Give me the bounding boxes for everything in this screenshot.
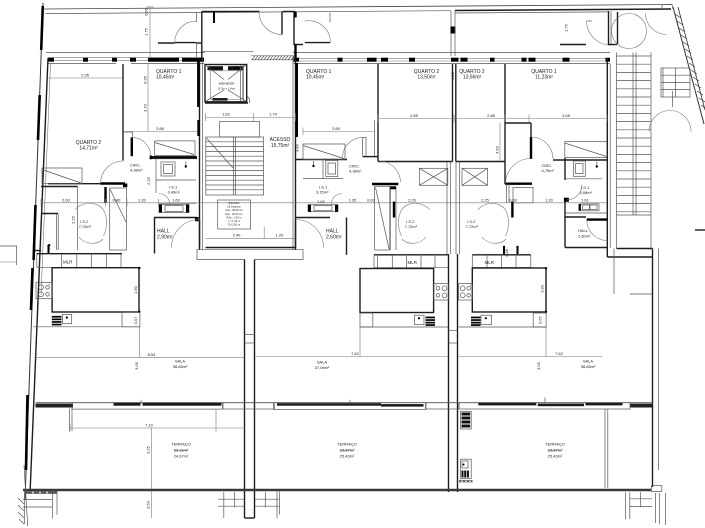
- MLR cabinets C: [472, 255, 531, 268]
- svg-text:37,06m²: 37,06m²: [315, 365, 330, 370]
- exterior stair center left: [218, 492, 245, 518]
- svg-text:0.57: 0.57: [538, 315, 543, 324]
- IS1-C door arc: [567, 185, 582, 200]
- porch window line: [202, 50, 254, 52]
- door swing arc at stair base: [649, 111, 691, 132]
- exterior stair bottom-right: [626, 492, 653, 519]
- svg-text:25,43m²: 25,43m²: [548, 454, 563, 459]
- party wall A/B crossbars: [245, 334, 255, 336]
- svg-text:0.60: 0.60: [509, 198, 518, 203]
- svg-text:4,75m²: 4,75m²: [542, 168, 555, 173]
- porch grille hatched strip: [251, 56, 294, 60]
- window C frame: [459, 403, 630, 409]
- unit A east wall thick piece: [197, 120, 199, 136]
- IS1-A top wall: [151, 158, 197, 160]
- IS2-A inner vertical: [77, 187, 79, 251]
- right boundary hatched band inner: [678, 7, 705, 110]
- terrace A privacy stub: [69, 409, 71, 432]
- north wall solid chunks left: [48, 58, 204, 62]
- Q1C door arc: [531, 137, 553, 159]
- svg-text:4.50: 4.50: [495, 145, 500, 154]
- svg-text:0.95: 0.95: [144, 7, 149, 16]
- porch right step wall: [294, 44, 303, 46]
- svg-text:0.57: 0.57: [133, 316, 138, 325]
- entry porch left wall: [201, 12, 203, 59]
- svg-text:3.70: 3.70: [143, 103, 148, 112]
- stair info box text: [225, 201, 243, 227]
- svg-text:1.60: 1.60: [317, 199, 326, 204]
- svg-text:3.25: 3.25: [146, 445, 151, 454]
- svg-text:1.61: 1.61: [581, 198, 590, 203]
- svg-text:elevador: elevador: [219, 81, 235, 86]
- stove B: [434, 284, 449, 300]
- vestibule door arc: [587, 21, 611, 45]
- top-right vestibule wall double line: [455, 9, 671, 11]
- recess wall right of door: [283, 11, 296, 13]
- IS1-A inner divider: [156, 179, 196, 181]
- IS2-C jamb: [506, 184, 508, 203]
- svg-text:11,23m²: 11,23m²: [535, 75, 553, 81]
- HALL-A junction black: [195, 217, 199, 221]
- svg-text:3.08: 3.08: [562, 113, 571, 118]
- svg-text:1.75: 1.75: [564, 23, 569, 32]
- svg-text:7,72m²: 7,72m²: [466, 224, 479, 229]
- svg-text:1.90: 1.90: [133, 285, 138, 294]
- right edge tick: [695, 229, 705, 231]
- left boundary thick segment 4: [31, 268, 33, 310]
- svg-text:3,08m²: 3,08m²: [580, 190, 593, 195]
- svg-text:8.54: 8.54: [148, 352, 157, 357]
- HALL-C entry door arc: [587, 220, 608, 241]
- svg-text:2.48: 2.48: [504, 248, 509, 257]
- Q1A door leaf: [131, 137, 133, 156]
- toilet A: [161, 162, 175, 176]
- window B slider bars: [277, 403, 381, 406]
- sink A: [62, 315, 71, 324]
- HALL-C top wall: [565, 216, 586, 218]
- Q1A south wall: [151, 156, 197, 158]
- kitchen island C: [472, 268, 546, 312]
- dim row elevator 1.82 / 1.79: [206, 112, 296, 122]
- dim 8.54 sala A: [34, 352, 245, 370]
- far-left small ground mark: [0, 261, 17, 263]
- front wall segment B-C: [426, 403, 459, 409]
- IS1-A west wall: [155, 159, 157, 193]
- HALL-B entry door leaf: [295, 220, 297, 248]
- IS2-C swing curve: [478, 203, 509, 236]
- boundary lower thin parallel: [24, 465, 28, 526]
- IS2-C shower box: [462, 168, 488, 185]
- svg-text:2.85: 2.85: [410, 113, 419, 118]
- svg-text:4,38m²: 4,38m²: [349, 169, 362, 174]
- svg-text:1.20: 1.20: [545, 198, 554, 203]
- recess door leaf: [281, 12, 283, 35]
- texts and dimensions: [34, 7, 607, 518]
- porch north wall with door A : wall bits: [158, 42, 175, 44]
- svg-text:7.10: 7.10: [145, 423, 154, 428]
- IS2-B door leaf black: [393, 202, 395, 218]
- svg-text:ESCADA: ESCADA: [229, 201, 240, 205]
- HALL-A entry door leaf: [199, 220, 201, 248]
- IS2-B shower box: [419, 168, 447, 185]
- svg-text:2.25: 2.25: [481, 198, 490, 203]
- front wall segment A-B: [223, 403, 274, 409]
- svg-text:2,90m²: 2,90m²: [157, 235, 173, 241]
- svg-text:0.80: 0.80: [113, 198, 122, 203]
- Q2A closet: [42, 168, 82, 184]
- counter B: [360, 313, 448, 327]
- IS1-A door arc: [159, 194, 170, 205]
- svg-text:1.60: 1.60: [172, 198, 181, 203]
- kitchen island A: [52, 268, 139, 312]
- HALL-C entry door leaf: [587, 218, 608, 220]
- left boundary thick segment 1: [41, 6, 43, 50]
- top-right vestibule south wall: [560, 44, 586, 46]
- unit C east wall double: [606, 58, 608, 257]
- svg-text:3.50: 3.50: [146, 500, 151, 509]
- dim 3.25 terrace A vertical: [146, 428, 152, 489]
- svg-text:0.35: 0.35: [143, 75, 148, 84]
- svg-text:L = 1,20 m: L = 1,20 m: [228, 219, 240, 223]
- Q1B door arc: [343, 137, 363, 157]
- party wall B/C crossbars: [449, 330, 458, 332]
- window A frame: [72, 403, 223, 409]
- left boundary thick segment 3: [34, 205, 36, 260]
- sala front wall thin line: [36, 402, 653, 404]
- north window wall double lines right: [294, 57, 611, 59]
- island A corner dots: [138, 267, 140, 269]
- svg-text:2.63: 2.63: [62, 198, 71, 203]
- A closet junction black: [123, 184, 127, 188]
- svg-text:2.88: 2.88: [487, 113, 496, 118]
- door A jamb: [196, 13, 198, 23]
- svg-text:SALA: SALA: [175, 359, 186, 364]
- double vertical below top line b: [454, 11, 456, 56]
- dim 7.10 terrace A: [70, 410, 245, 433]
- svg-text:18 Degraus: 18 Degraus: [227, 205, 241, 209]
- IS2-C tub curve: [482, 237, 506, 243]
- recess door swing arc: [259, 12, 282, 35]
- svg-text:SALA: SALA: [583, 359, 594, 364]
- left boundary thick segment 5: [26, 395, 28, 470]
- sink hatch A: [52, 316, 62, 326]
- Q1A pilaster L: [123, 132, 133, 137]
- Q2A door leaf/wall south: [48, 183, 101, 185]
- svg-text:P.dir.: 1,50 m: P.dir.: 1,50 m: [227, 215, 242, 219]
- svg-text:4.80: 4.80: [450, 71, 455, 80]
- sink B: [415, 315, 425, 324]
- top-right step corner: [662, 4, 673, 10]
- Q1C closet: [565, 141, 608, 157]
- dim 0.35 / 3.70 vertical QUARTO1A: [143, 64, 149, 132]
- svg-text:TERRAÇO: TERRAÇO: [337, 442, 357, 447]
- terrace SE junction box: [651, 486, 661, 492]
- sink hatch B: [426, 317, 436, 326]
- dim 4.50 vertical C: [495, 123, 501, 162]
- svg-text:MLR: MLR: [485, 260, 495, 265]
- svg-text:4.80: 4.80: [295, 143, 300, 152]
- towel hook C: [596, 162, 598, 167]
- C south wall bit: [565, 247, 607, 249]
- svg-text:2.25: 2.25: [71, 215, 76, 224]
- window A slider bar: [114, 403, 141, 406]
- elevator: [205, 65, 250, 104]
- stove C: [459, 284, 473, 300]
- svg-text:2.40: 2.40: [233, 233, 242, 238]
- IS1-B inner divider vertical: [322, 160, 324, 179]
- right boundary hatch ticks: [675, 14, 705, 108]
- counter C: [459, 313, 546, 327]
- dim 7.62 sala C: [458, 351, 603, 370]
- terrace bottom wall: [23, 489, 651, 492]
- neighbour building stub left edge: [0, 246, 17, 265]
- svg-text:(1,3m x 1,4m): (1,3m x 1,4m): [218, 87, 235, 91]
- vestibule wall bit: [608, 44, 617, 46]
- party wall B/C IS2 zone: [446, 162, 448, 255]
- right mid short wall: [630, 293, 653, 295]
- vestibule inner wall double: [608, 11, 610, 45]
- mid dim row values B: [349, 198, 518, 203]
- svg-text:0.60: 0.60: [367, 198, 376, 203]
- elevator bottom wall: [205, 102, 248, 104]
- svg-text:7.62: 7.62: [555, 351, 564, 356]
- svg-text:2.95: 2.95: [81, 73, 90, 78]
- svg-text:24,67m²: 24,67m²: [174, 454, 189, 459]
- svg-text:14,71m²: 14,71m²: [79, 146, 98, 152]
- dim 1.60 IS1A vanity: [159, 203, 196, 205]
- island C corner dots: [545, 267, 547, 269]
- terrace C sink unit: [461, 459, 472, 479]
- svg-text:SALA: SALA: [317, 360, 328, 365]
- svg-text:7,72m²: 7,72m²: [405, 224, 418, 229]
- stove A: [36, 283, 52, 299]
- toilet B: [326, 161, 338, 177]
- svg-text:1.20: 1.20: [276, 233, 285, 238]
- IS1-C walls: [564, 158, 566, 180]
- svg-text:Cob.: 28,00 cm: Cob.: 28,00 cm: [225, 208, 243, 212]
- exterior stair bottom-left: [23, 491, 57, 524]
- stair upper landing: [220, 122, 260, 138]
- party wall B/C lower: [448, 254, 450, 492]
- entry second door arc: [646, 14, 667, 35]
- toilet C: [573, 161, 585, 176]
- front wall segment C right: [630, 404, 653, 408]
- svg-text:3.05: 3.05: [536, 361, 541, 370]
- HALL-B east wall: [346, 218, 348, 255]
- door B leaf: [305, 42, 331, 44]
- front wall solid segment left: [36, 404, 74, 408]
- stair enclosure extension: [613, 249, 615, 295]
- svg-text:1.75: 1.75: [144, 27, 149, 36]
- IS2-B swing curve: [398, 203, 430, 236]
- Q1B door pocket: [374, 120, 376, 157]
- left property boundary diagonal: [25, 3, 43, 500]
- Q1A closet: [155, 141, 195, 156]
- terrace C inner east wall: [604, 409, 606, 488]
- dim 3.50 below terrace: [146, 491, 152, 518]
- svg-text:1.82: 1.82: [222, 112, 231, 117]
- counter A: [33, 312, 139, 327]
- Q1B divider: [377, 64, 379, 162]
- svg-text:38,66m²: 38,66m²: [581, 364, 596, 369]
- A duct tick: [48, 246, 50, 254]
- svg-text:TERRAÇO: TERRAÇO: [171, 442, 191, 447]
- svg-text:23,11m²: 23,11m²: [174, 448, 189, 453]
- MLR cabinets B: [374, 255, 448, 268]
- entry wall A left section: [35, 250, 41, 252]
- top dim tick left: [146, 6, 154, 8]
- IS2-A shower stall wall: [41, 213, 58, 215]
- door B jamb: [329, 13, 331, 23]
- IS2-A door leaf black: [104, 187, 106, 203]
- svg-text:4,38m²: 4,38m²: [130, 168, 143, 173]
- kitchen island B: [360, 269, 434, 313]
- IS1-A junction black: [150, 156, 153, 160]
- Q2A door arc: [101, 161, 124, 184]
- west exterior wall slanted: [30, 58, 48, 489]
- svg-text:38,66m²: 38,66m²: [173, 364, 188, 369]
- Q1C door leaf: [530, 137, 532, 159]
- HALL-B entry door arc: [296, 220, 324, 248]
- recess wall left of recess door: [202, 11, 260, 13]
- window C tick: [544, 398, 546, 403]
- drain strip A: [26, 491, 57, 494]
- svg-text:15,75m²: 15,75m²: [271, 143, 290, 149]
- svg-text:MLR: MLR: [63, 260, 73, 265]
- svg-text:Esp.: 18,00 cm: Esp.: 18,00 cm: [225, 212, 242, 216]
- ramp hatch bottom-left: [18, 498, 24, 524]
- towel hook B: [313, 161, 315, 166]
- Q2B door arc: [379, 161, 401, 182]
- IS2-C upper box: [513, 188, 533, 203]
- svg-text:3,49m²: 3,49m²: [168, 190, 181, 195]
- acesso east wall double: [295, 45, 297, 250]
- svg-text:10,45m²: 10,45m²: [156, 75, 175, 81]
- svg-text:3.05: 3.05: [134, 361, 139, 370]
- north wall solid chunks right: [294, 58, 611, 62]
- svg-text:HALL: HALL: [578, 228, 589, 233]
- svg-text:2.25: 2.25: [146, 176, 151, 185]
- svg-text:13,56m²: 13,56m²: [463, 75, 482, 81]
- svg-text:23,67m²: 23,67m²: [548, 448, 563, 453]
- Q2C south wall: [456, 161, 505, 163]
- svg-text:1.90: 1.90: [540, 284, 545, 293]
- top site line outer: [43, 5, 672, 10]
- dim 7.62 sala B: [255, 351, 449, 357]
- bedroom divider Q2A/Q1A: [122, 64, 124, 161]
- IS1-B door arc: [332, 194, 343, 205]
- C east lower wall jog: [607, 256, 652, 258]
- right boundary hatched band outer: [673, 7, 704, 124]
- unit A east wall double: [199, 58, 201, 250]
- svg-text:2,60m²: 2,60m²: [326, 235, 342, 241]
- B linen closet column: [375, 186, 390, 250]
- MLR cabinets A: [37, 254, 122, 268]
- window C slider bars: [478, 403, 536, 406]
- fixtures: [33, 160, 599, 479]
- svg-text:25,43m²: 25,43m²: [340, 454, 355, 459]
- top wall thin line right section: [293, 52, 610, 54]
- svg-text:7.62: 7.62: [351, 351, 360, 356]
- door A leaf: [175, 42, 197, 44]
- svg-text:10,45m²: 10,45m²: [306, 75, 325, 81]
- Q2C door wall: [505, 182, 532, 184]
- window B frame: [273, 403, 425, 410]
- svg-text:23,67m²: 23,67m²: [340, 448, 355, 453]
- dim 0.95 1.75 top left: [144, 7, 149, 36]
- IS2-B tub curve: [402, 237, 426, 243]
- dim 2.40 / 1.20 acesso: [206, 227, 296, 239]
- svg-text:2.26: 2.26: [408, 198, 417, 203]
- mid dim row values C: [545, 198, 590, 203]
- A linen closet column: [110, 188, 127, 250]
- Q1B south wall: [296, 159, 347, 161]
- top site line inner: [46, 11, 452, 14]
- IS2-A drain: [48, 245, 50, 250]
- CIRC-B/IS2-B wall with door: [372, 183, 398, 185]
- svg-text:MLR: MLR: [408, 260, 418, 265]
- svg-text:1.79: 1.79: [269, 112, 278, 117]
- porch right wall: [293, 12, 295, 46]
- double vertical below top line: [450, 11, 452, 56]
- left boundary thick segment 2: [38, 95, 40, 140]
- svg-text:2.85: 2.85: [332, 126, 341, 131]
- dim extension lines kitchens: [139, 327, 141, 357]
- Q1C south wall: [553, 159, 607, 161]
- top vertical dim line x150: [149, 6, 151, 57]
- vanity B: [308, 205, 338, 212]
- svg-text:13,50m²: 13,50m²: [417, 75, 436, 81]
- sink C: [481, 315, 492, 324]
- HALL-A top wall: [154, 217, 197, 219]
- mid dim line across: [41, 202, 607, 204]
- stair info box: [218, 200, 251, 229]
- vanity A: [159, 205, 189, 213]
- svg-text:TERRAÇO: TERRAÇO: [545, 442, 565, 447]
- tick mark on top line: [213, 12, 215, 23]
- drain strip C: [459, 480, 473, 482]
- north wall sill left: [48, 63, 116, 65]
- svg-text:1.20: 1.20: [138, 198, 147, 203]
- IS2-A door swing curve: [75, 203, 107, 236]
- svg-text:3,15m²: 3,15m²: [316, 190, 329, 195]
- west exterior wall inner thin: [41, 64, 51, 295]
- C divider upper: [504, 64, 506, 184]
- party wall B/C upper: [452, 64, 454, 162]
- svg-text:1.35: 1.35: [349, 198, 358, 203]
- Q1B closet: [303, 144, 345, 160]
- B duct column: [389, 186, 391, 250]
- IS2-A top wall: [41, 186, 78, 188]
- vestibule east wall: [617, 12, 619, 45]
- dim 2.88 QUARTO1A: [123, 126, 197, 132]
- HALL-B top wall: [296, 217, 330, 219]
- north wall sill right: [294, 63, 611, 65]
- Q2B south wall: [378, 161, 453, 163]
- IS2-A tub curve: [79, 237, 103, 243]
- C divider jog: [505, 122, 531, 124]
- window A tick: [140, 400, 142, 404]
- mid dim row values A: [41, 198, 326, 207]
- dim 2.95 QUARTO2A: [49, 73, 123, 79]
- small side stair top-right: [661, 68, 690, 97]
- C duct ticks: [503, 247, 505, 255]
- porch below acesso: [197, 249, 245, 259]
- entry revolving door circle: [612, 14, 647, 49]
- north window wall double lines left: [48, 57, 204, 59]
- bottom-right wall descent: [655, 493, 665, 525]
- towel hook A: [185, 162, 187, 167]
